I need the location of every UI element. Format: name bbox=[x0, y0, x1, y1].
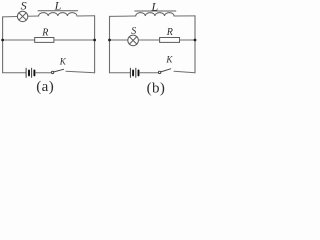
wire top-left to inductor (b) bbox=[110, 15, 136, 17]
inductor L (a) coil with core bar bbox=[38, 11, 78, 16]
wire inductor to top-right corner (a) bbox=[77, 15, 95, 17]
lamp S (b) bbox=[128, 35, 139, 46]
inductor L (b) coil with core bar bbox=[135, 11, 176, 16]
svg-text:K: K bbox=[59, 56, 67, 66]
wire bottom-left to battery (a) bbox=[3, 72, 26, 74]
svg-text:K: K bbox=[165, 55, 173, 65]
svg-text:S: S bbox=[21, 0, 27, 12]
switch K (b) bbox=[158, 69, 170, 74]
svg-text:R: R bbox=[166, 27, 173, 38]
junction node left (a) bbox=[1, 39, 4, 42]
svg-text:S: S bbox=[131, 26, 136, 37]
junction node right (a) bbox=[93, 39, 96, 42]
wire top-left to lamp (a) bbox=[3, 16, 18, 18]
svg-text:L: L bbox=[54, 0, 62, 13]
wire right vertical (a) bbox=[94, 16, 96, 73]
wire switch to bottom-right corner (b) bbox=[174, 71, 195, 72]
svg-text:(b): (b) bbox=[147, 80, 166, 96]
wire switch to bottom-right corner (a) bbox=[66, 71, 95, 72]
wire bottom-left to battery (b) bbox=[110, 72, 130, 74]
wire middle-left to resistor (a) bbox=[3, 39, 35, 41]
wire inductor to top-right corner (b) bbox=[174, 15, 195, 17]
wire resistor to middle-right (a) bbox=[54, 39, 95, 41]
battery (a) bbox=[26, 68, 34, 77]
wire middle-left to lamp (b) bbox=[110, 39, 128, 41]
resistor R (a) bbox=[35, 38, 54, 43]
battery (b) bbox=[130, 68, 138, 77]
switch K (a) bbox=[51, 69, 63, 73]
wire resistor to middle-right (b) bbox=[180, 39, 196, 41]
svg-text:(a): (a) bbox=[36, 79, 54, 95]
svg-text:L: L bbox=[150, 0, 158, 13]
resistor R (b) bbox=[160, 38, 180, 43]
wire battery to switch (a) bbox=[35, 72, 51, 74]
wire lamp to inductor (a) bbox=[28, 15, 39, 17]
svg-text:R: R bbox=[41, 28, 48, 39]
lamp S (a) bbox=[17, 11, 27, 21]
wire left vertical (b) bbox=[109, 16, 111, 72]
wire right vertical (b) bbox=[194, 16, 196, 73]
wire battery to switch (b) bbox=[140, 72, 159, 74]
wire left vertical (a) bbox=[2, 17, 4, 73]
wire lamp to resistor (b) bbox=[138, 39, 159, 41]
junction node right (b) bbox=[194, 39, 197, 42]
junction node left (b) bbox=[108, 39, 111, 42]
